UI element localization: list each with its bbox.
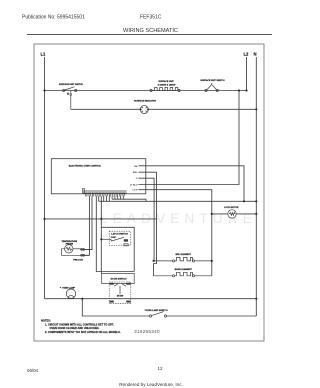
svg-text:OVEN LAMP: OVEN LAMP xyxy=(62,287,76,290)
svg-text:SURFACE UNIT: SURFACE UNIT xyxy=(158,80,174,83)
svg-text:N: N xyxy=(254,52,257,57)
EOC pin labels xyxy=(130,166,139,192)
svg-text:SURFACE UNIT SWITCH: SURFACE UNIT SWITCH xyxy=(59,83,84,86)
svg-text:316255340: 316255340 xyxy=(134,329,160,334)
svg-text:*OVEN LAMP SWITCH: *OVEN LAMP SWITCH xyxy=(145,309,168,312)
latch switch assembly xyxy=(101,227,134,271)
svg-text:2. COMPONENTS WITH * DO NOT: 2. COMPONENTS WITH * DO NOT APPEAR ON AL… xyxy=(45,330,121,334)
wire door box A xyxy=(96,196,134,271)
junction LT BLU riser / top rail xyxy=(238,89,240,91)
svg-text:TEMPERATURE: TEMPERATURE xyxy=(61,240,77,243)
svg-text:Publication No: 5995415501: Publication No: 5995415501 xyxy=(22,15,85,21)
electronic oven control box U1 xyxy=(51,159,146,194)
svg-text:LT BLU: LT BLU xyxy=(130,185,138,187)
surface unit switch SW1 xyxy=(63,87,77,110)
svg-text:BRL ELEMENT: BRL ELEMENT xyxy=(175,254,191,256)
wire bottom main line xyxy=(45,298,257,300)
broil element xyxy=(154,257,212,262)
node L1 xyxy=(44,57,46,299)
junction lamp branch tap xyxy=(81,298,83,300)
wire comb 7 xyxy=(120,196,122,199)
bake element xyxy=(154,272,212,277)
wire comb 8 xyxy=(122,196,124,199)
svg-text:DR SW: DR SW xyxy=(117,296,124,298)
svg-text:DOOR SWITCH: DOOR SWITCH xyxy=(111,279,127,281)
junction left rail / broil wire xyxy=(153,260,155,262)
wire comb 3 xyxy=(108,196,110,201)
svg-text:Rendered by LeadVenture, Inc.: Rendered by LeadVenture, Inc. xyxy=(119,382,183,387)
temperature probe xyxy=(62,245,93,257)
svg-text:LOCK MOTOR: LOCK MOTOR xyxy=(224,207,239,209)
wire pin BRL xyxy=(139,172,157,276)
junction L1 / top rail xyxy=(43,89,45,91)
svg-text:L1: L1 xyxy=(41,52,47,57)
junction right rail / broil wire xyxy=(211,260,213,262)
wire L1 mid line xyxy=(45,218,158,220)
wire comb 1 xyxy=(103,196,105,201)
svg-text:1. CIRCUIT SHOWN WITH ALL CON: 1. CIRCUIT SHOWN WITH ALL CONTROLS SET T… xyxy=(45,322,114,326)
svg-text:ELECTRONIC OVEN CONTROL: ELECTRONIC OVEN CONTROL xyxy=(69,166,102,168)
junction N / indicator line xyxy=(255,108,257,110)
junction element rail / motor line xyxy=(211,213,213,215)
svg-text:FEF351C: FEF351C xyxy=(140,15,162,21)
wire comb 6 xyxy=(117,196,119,199)
junction latch COM tap xyxy=(100,238,102,240)
svg-text:06/04: 06/04 xyxy=(27,368,39,373)
EOC connector strip xyxy=(83,189,127,197)
title rule xyxy=(27,34,272,36)
junction N / motor line xyxy=(255,213,257,215)
svg-text:LT W: LT W xyxy=(132,190,138,192)
wire comb 5 xyxy=(114,196,116,199)
node N xyxy=(255,57,257,316)
wire neutral start xyxy=(98,196,100,201)
svg-text:2 2400W & 1800W: 2 2400W & 1800W xyxy=(158,83,176,86)
lock motor M1 xyxy=(228,210,236,218)
wire comb 4 xyxy=(111,196,113,199)
junction BK drop / neutral line xyxy=(243,200,245,202)
wire EOC neutral to N xyxy=(99,200,257,202)
wire indicator line xyxy=(71,108,256,110)
wire probe lower xyxy=(81,196,90,255)
svg-text:PROBE: PROBE xyxy=(66,244,74,246)
wire probe upper xyxy=(81,196,93,249)
wire pin LT BLU xyxy=(139,91,240,185)
svg-text:OVEN DOOR CLOSED AND UNLOCKED.: OVEN DOOR CLOSED AND UNLOCKED. xyxy=(50,326,100,330)
svg-text:COM: COM xyxy=(111,237,116,239)
junction latch riser / mid line xyxy=(100,218,102,220)
wire lamp switch branch xyxy=(82,299,149,316)
svg-text:LATCH SWITCH: LATCH SWITCH xyxy=(111,232,128,235)
junction N / bottom main line xyxy=(255,298,257,300)
svg-text:NOTES:: NOTES: xyxy=(41,319,51,323)
svg-text:12: 12 xyxy=(158,366,163,371)
junction N / neutral line xyxy=(255,200,257,202)
wire lock motor line xyxy=(212,213,256,215)
wire top rail xyxy=(45,90,247,92)
oven lamp switch xyxy=(149,312,166,318)
svg-text:PRB CON: PRB CON xyxy=(73,260,83,262)
junction L1 / mid line xyxy=(43,218,45,220)
schematic frame xyxy=(34,44,264,341)
wire comb bus xyxy=(112,199,146,201)
svg-text:L2: L2 xyxy=(244,52,250,57)
surface unit element (2400W/1800W) xyxy=(150,88,180,92)
svg-text:BRL: BRL xyxy=(133,172,138,174)
wire latch top jumper xyxy=(101,227,134,271)
svg-text:SURFACE UNIT SWITCH: SURFACE UNIT SWITCH xyxy=(200,79,225,82)
svg-text:SURFACE INDICATOR: SURFACE INDICATOR xyxy=(134,100,156,103)
wire pin O xyxy=(139,178,155,261)
svg-text:BK: BK xyxy=(134,166,138,168)
wire comb 2 xyxy=(106,196,108,201)
svg-text:O: O xyxy=(136,178,138,180)
svg-text:WIRING SCHEMATIC: WIRING SCHEMATIC xyxy=(123,28,178,34)
node L2 xyxy=(246,57,248,91)
strip wires xyxy=(81,196,135,273)
wire pin LT W xyxy=(139,190,212,276)
oven lamp xyxy=(66,289,75,299)
surface unit switch SW2 xyxy=(205,83,219,92)
svg-text:BAKE ELEMENT: BAKE ELEMENT xyxy=(175,268,193,271)
surface indicator lamp xyxy=(140,106,149,114)
wire door box B / latch feed xyxy=(100,196,102,273)
wire pin BK xyxy=(139,166,245,202)
junction L2 / top rail xyxy=(245,89,247,91)
door switch assembly xyxy=(102,274,135,284)
